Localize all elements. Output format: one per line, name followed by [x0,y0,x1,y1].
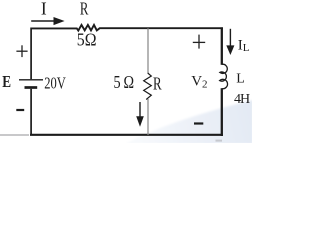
plus sign (V2 +) [198,35,200,49]
minus sign (V2 -) [194,122,203,124]
faint smudge below bottom-right corner [216,140,223,142]
current arrow through R (down) [139,102,141,119]
faint table-edge line left of circuit [0,134,29,136]
battery E long plate (+) [19,79,43,81]
battery E short thick plate (-) [25,86,38,89]
wire: left wire top segment [30,28,32,80]
svg-text:I: I [41,0,47,18]
svg-text:IL: IL [238,37,250,54]
wire: right wire bottom segment [221,88,223,136]
svg-text:E: E [2,72,11,91]
svg-text:L: L [236,72,245,87]
current arrow I (top) [31,20,56,22]
svg-text:R: R [80,0,89,19]
resistor R2 vertical zigzag [144,73,152,100]
wire: top wire with resistor R1 zigzag [31,25,223,31]
minus sign (source -) [16,109,24,111]
wire: right wire top segment [221,27,223,64]
inductor L coil [220,64,228,88]
current arrow IL (down, right) [229,29,231,47]
wire: bottom wire [30,134,223,136]
svg-text:V2: V2 [191,74,207,91]
svg-text:R: R [153,74,162,94]
svg-text:5Ω: 5Ω [77,30,97,50]
background wash (decorative) [125,100,253,144]
wire: left wire bottom segment [30,89,32,136]
svg-text:4H: 4H [234,92,250,107]
svg-text:20V: 20V [44,74,66,93]
svg-text:5 Ω: 5 Ω [114,72,135,92]
plus sign (source +) [21,45,23,57]
wire: middle branch upper segment [147,28,149,73]
wire: middle branch lower segment [147,99,149,135]
